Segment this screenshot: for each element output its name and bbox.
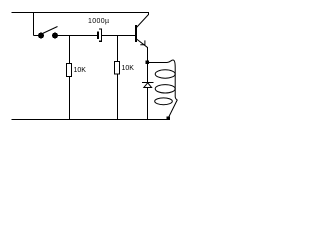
wire capacitor to transistor base bbox=[102, 35, 135, 37]
wire R2 to bottom rail bbox=[117, 74, 119, 120]
capacitor C1 positive bracket plate bbox=[99, 29, 102, 41]
wire from switch to capacitor bbox=[55, 35, 97, 37]
transistor Q1 emitter arrow barbs bbox=[140, 40, 145, 44]
wire branch from top rail to switch bbox=[33, 13, 35, 36]
svg-text:10K: 10K bbox=[74, 67, 87, 74]
resistor R1 body bbox=[67, 64, 72, 77]
diode D1 triangle bbox=[144, 83, 152, 88]
wire top rail bbox=[12, 12, 150, 14]
transistor Q1 emitter wire bbox=[137, 39, 148, 47]
resistor R2 body bbox=[115, 62, 120, 75]
diode D1 cathode bar bbox=[142, 82, 154, 84]
node junction dot coil/bottom rail bbox=[167, 117, 171, 121]
switch S1 lever bbox=[43, 27, 58, 34]
coil L1 loop 2 bbox=[155, 85, 175, 93]
wire to switch pole bbox=[34, 35, 42, 37]
node junction dot emitter/coil/diode bbox=[146, 61, 150, 65]
coil L1 loop 3 bbox=[155, 98, 173, 105]
coil L1 loop 1 bbox=[155, 70, 175, 78]
svg-text:10K: 10K bbox=[122, 65, 135, 72]
switch S1 right contact bbox=[52, 33, 58, 39]
capacitor C1 negative plate bbox=[97, 32, 99, 40]
wire emitter to node bbox=[147, 47, 149, 82]
switch S1 left contact bbox=[38, 33, 44, 39]
node T: junction to resistor R1 bbox=[69, 36, 71, 64]
wire bottom rail bbox=[12, 119, 169, 121]
coil L1 lead and right descender bbox=[149, 60, 177, 118]
wire R1 to bottom rail bbox=[69, 77, 71, 120]
wire diode to bottom rail bbox=[147, 88, 149, 120]
transistor Q1 collector wire bbox=[136, 13, 149, 29]
transistor Q1 base bar bbox=[135, 25, 137, 42]
svg-text:1000µ: 1000µ bbox=[88, 18, 109, 25]
node: junction to resistor R2 bbox=[117, 36, 119, 62]
